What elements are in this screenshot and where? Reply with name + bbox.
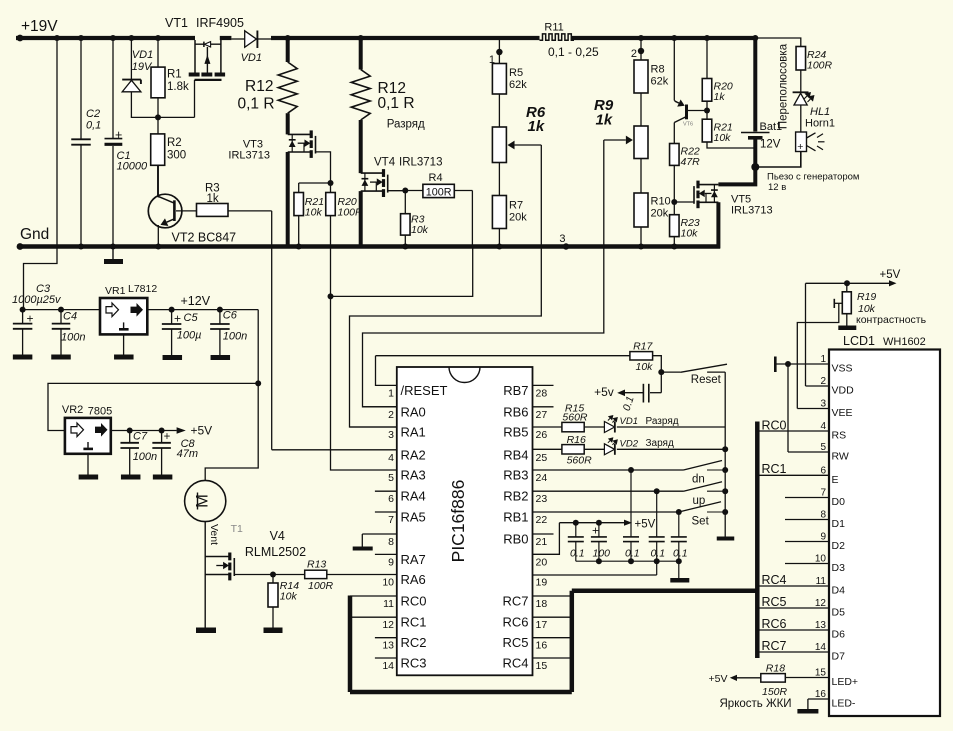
- label +19V: [21, 18, 58, 35]
- label VT2 BC847: [172, 231, 237, 245]
- transistor VT6: [674, 99, 707, 122]
- svg-text:2: 2: [631, 48, 637, 60]
- svg-text:100n: 100n: [223, 331, 247, 343]
- svg-text:100µ: 100µ: [177, 330, 202, 342]
- resistor R16: [533, 445, 605, 454]
- capacitor C2: [71, 40, 91, 245]
- svg-text:R13: R13: [307, 559, 326, 571]
- svg-text:R17: R17: [633, 341, 653, 353]
- label VT4 IRL3713: [374, 157, 442, 169]
- svg-text:0.1: 0.1: [651, 548, 666, 560]
- resistor R10: [634, 159, 648, 245]
- svg-text:8: 8: [388, 536, 394, 548]
- label VD1 led: [620, 416, 679, 427]
- node line VR1 input: [23, 309, 100, 311]
- node dot R14 top: [270, 572, 276, 578]
- svg-text:13: 13: [815, 620, 827, 631]
- svg-text:+: +: [174, 312, 181, 326]
- label Set: [692, 516, 710, 528]
- node dot R20 R21: [704, 108, 710, 114]
- transistor VT4 IRL3713: [361, 169, 388, 197]
- resistor R4: [405, 184, 472, 197]
- node dot R4 node: [402, 188, 408, 194]
- pin 11 RC0: [350, 594, 427, 611]
- svg-text:7805: 7805: [88, 406, 112, 418]
- LCD pin 10 D3: [785, 554, 845, 575]
- node dot set drop: [676, 509, 682, 515]
- diode VD1 power: [231, 31, 271, 49]
- wire VDD feed: [805, 283, 807, 386]
- wire HL1 to horn: [800, 105, 802, 132]
- wire R3 to RA2: [272, 211, 397, 450]
- resistor R22: [670, 144, 680, 215]
- svg-text:6: 6: [820, 465, 826, 476]
- svg-text:RB4: RB4: [503, 447, 528, 462]
- svg-text:HL1: HL1: [810, 106, 830, 118]
- svg-text:14: 14: [382, 660, 394, 672]
- pin 7 RA5: [375, 510, 426, 527]
- svg-text:R16: R16: [567, 434, 586, 446]
- svg-text:1.8k: 1.8k: [167, 81, 189, 93]
- svg-text:1: 1: [388, 387, 394, 399]
- svg-text:23: 23: [536, 493, 548, 505]
- wire reset bus down: [717, 372, 735, 540]
- wire horn to node: [755, 152, 801, 168]
- svg-text:WH1602: WH1602: [883, 336, 926, 348]
- capacitor C8: [152, 428, 172, 480]
- capacitor C5: [162, 307, 182, 360]
- LCD pin 2 VDD: [806, 376, 855, 397]
- label LCD1: [843, 334, 926, 348]
- label RC0: [762, 419, 787, 433]
- svg-text:RC7: RC7: [502, 594, 528, 609]
- pin 12 RC1: [350, 615, 427, 632]
- label RC1: [762, 462, 787, 476]
- svg-text:14: 14: [815, 642, 827, 653]
- wire VT6 collector to rail: [673, 40, 675, 101]
- label R17: [633, 341, 653, 374]
- label bank c3: [625, 548, 640, 560]
- svg-text:RC0: RC0: [401, 594, 427, 609]
- label bank c5: [673, 548, 688, 560]
- svg-text:+5v: +5v: [594, 385, 614, 399]
- svg-text:12: 12: [815, 598, 827, 609]
- label +5V r18: [709, 673, 728, 685]
- svg-text:26: 26: [536, 429, 548, 441]
- svg-text:Разряд: Разряд: [646, 416, 679, 427]
- wire cap bank bottom rail: [576, 560, 679, 562]
- pin 10 RA6: [382, 572, 425, 589]
- node dot R1 bottom: [155, 114, 161, 120]
- potentiometer R9: [604, 126, 648, 159]
- svg-text:100R: 100R: [807, 60, 833, 72]
- svg-text:RC1: RC1: [762, 462, 787, 476]
- svg-text:2: 2: [388, 409, 394, 421]
- IC LCD1 WH1602 body: [829, 350, 940, 717]
- pin 4 RA2: [388, 447, 426, 464]
- svg-text:12V: 12V: [760, 139, 781, 151]
- svg-text:20k: 20k: [651, 208, 669, 220]
- label R6: [526, 104, 546, 135]
- label VT6: [683, 122, 693, 128]
- svg-text:27: 27: [536, 409, 548, 421]
- svg-text:10k: 10k: [280, 591, 298, 603]
- label R20 near VT3: [338, 196, 364, 219]
- svg-text:LED-: LED-: [832, 698, 856, 710]
- svg-text:10: 10: [382, 577, 394, 589]
- resistor R14: [264, 575, 283, 634]
- svg-text:RB5: RB5: [503, 425, 528, 440]
- label C3: [12, 283, 62, 306]
- label R20 1k: [714, 81, 733, 104]
- pin 21 RB0: [503, 532, 553, 549]
- label bank c4: [651, 548, 666, 560]
- svg-text:PIC16f886: PIC16f886: [448, 480, 468, 563]
- node dot VSS: [785, 361, 791, 367]
- svg-text:VD1: VD1: [132, 49, 153, 61]
- svg-text:5: 5: [388, 472, 394, 484]
- zener VD1 19V: [122, 40, 141, 117]
- svg-text:RA1: RA1: [401, 425, 426, 440]
- label piezo: [767, 172, 859, 194]
- label Razryad: [387, 119, 425, 131]
- svg-text:R7: R7: [509, 200, 523, 212]
- label +5v reset: [594, 385, 614, 399]
- svg-text:+5V: +5V: [635, 519, 656, 531]
- body diode VT4: [362, 173, 369, 191]
- svg-text:+5V: +5V: [880, 269, 901, 281]
- label HL1: [810, 106, 830, 118]
- pin 14 RC3: [375, 656, 427, 673]
- svg-text:RB3: RB3: [503, 468, 528, 483]
- svg-text:+: +: [27, 312, 34, 326]
- svg-text:25: 25: [536, 452, 548, 464]
- wire VSS to RW: [787, 364, 789, 452]
- wire R9 wiper route: [363, 140, 604, 407]
- svg-text:5: 5: [820, 442, 826, 453]
- svg-text:T1: T1: [231, 523, 243, 535]
- label C1: [117, 150, 148, 173]
- svg-text:17: 17: [536, 619, 548, 631]
- svg-text:9: 9: [388, 556, 394, 568]
- svg-text:0.1: 0.1: [570, 548, 585, 560]
- node dot rail R8: [638, 35, 644, 41]
- svg-text:RA5: RA5: [401, 510, 426, 525]
- label RC7: [762, 639, 787, 653]
- svg-text:10k: 10k: [681, 228, 699, 240]
- resistor R20 near VT3: [326, 193, 336, 297]
- svg-text:V4: V4: [270, 529, 285, 543]
- svg-text:Reset: Reset: [691, 374, 722, 386]
- svg-text:up: up: [693, 495, 706, 507]
- svg-text:RC6: RC6: [762, 617, 787, 631]
- wire R5 top: [498, 40, 500, 52]
- svg-text:1k: 1k: [207, 193, 219, 205]
- svg-text:18: 18: [536, 598, 548, 610]
- ground set drop: [670, 561, 689, 582]
- svg-text:C7: C7: [133, 431, 148, 443]
- capacitor bank c1 0.1: [568, 523, 584, 562]
- node dot rail VT6: [671, 35, 677, 41]
- svg-text:12: 12: [382, 619, 394, 631]
- node 2: [631, 48, 644, 60]
- node dot R19 top: [844, 280, 850, 286]
- svg-text:10k: 10k: [411, 224, 429, 236]
- speaker Horn1: [796, 132, 825, 153]
- pin 24 RB3: [503, 468, 547, 485]
- svg-text:1k: 1k: [596, 112, 613, 129]
- label R4: [426, 172, 452, 198]
- svg-text:6: 6: [388, 493, 394, 505]
- svg-text:Яркость ЖКИ: Яркость ЖКИ: [720, 698, 792, 710]
- wire VT3 gate route: [316, 152, 331, 183]
- node dots bank top: [573, 520, 602, 526]
- svg-text:62k: 62k: [651, 76, 669, 88]
- svg-text:R19: R19: [857, 291, 876, 303]
- wire Gnd rail: [20, 244, 720, 248]
- wire R6 wiper route: [350, 145, 542, 427]
- wire VT5 gate lead: [674, 201, 694, 203]
- svg-text:4: 4: [388, 452, 394, 464]
- svg-text:0,1 R: 0,1 R: [238, 96, 275, 113]
- wire T1 gate: [234, 574, 304, 576]
- label RC5: [762, 595, 787, 609]
- terminal VSS bar: [774, 357, 777, 373]
- label PIC16f886: [448, 480, 468, 563]
- node dot gnd R3b: [402, 244, 408, 250]
- resistor R21 near VT3: [294, 193, 304, 245]
- capacitor bank c3 0.1: [623, 470, 639, 561]
- label dn: [692, 474, 705, 486]
- svg-text:22: 22: [536, 514, 548, 526]
- label C6: [223, 310, 247, 343]
- svg-text:R11: R11: [544, 22, 563, 34]
- label R1: [167, 69, 189, 94]
- svg-text:10k: 10k: [636, 361, 654, 373]
- pin 27 RB6: [503, 404, 553, 421]
- svg-text:VD1: VD1: [620, 416, 638, 427]
- svg-text:RC6: RC6: [502, 615, 528, 630]
- node dot rail R12a: [285, 35, 291, 41]
- node dot up bus: [722, 488, 728, 494]
- svg-text:15: 15: [536, 660, 548, 672]
- capacitor bank c5 0.1: [671, 512, 687, 561]
- svg-text:D1: D1: [832, 518, 846, 530]
- svg-text:RB2: RB2: [503, 489, 528, 504]
- svg-text:300: 300: [167, 150, 186, 162]
- label R13: [307, 559, 334, 593]
- svg-text:10k: 10k: [305, 207, 323, 219]
- svg-text:20: 20: [536, 556, 548, 568]
- wire route to RA3: [331, 296, 397, 470]
- svg-text:/RESET: /RESET: [401, 383, 448, 398]
- resistor R3: [176, 204, 272, 217]
- node dot rail R12b: [358, 35, 364, 41]
- svg-text:LED+: LED+: [832, 676, 859, 688]
- label C7: [133, 431, 157, 464]
- transistor VT1 IRF4905: [189, 40, 225, 117]
- label VD1 power: [241, 52, 262, 64]
- label R24: [807, 49, 833, 72]
- resistor R18: [730, 674, 786, 683]
- svg-text:IRL3713: IRL3713: [228, 150, 270, 162]
- resistor R12 first: [278, 40, 297, 134]
- pin 16 RC5: [502, 635, 571, 652]
- label R3 10k: [411, 214, 429, 237]
- svg-text:10k: 10k: [714, 132, 732, 144]
- svg-text:RC0: RC0: [762, 419, 787, 433]
- diode HL1: [793, 92, 815, 105]
- label V4: [245, 529, 306, 559]
- node +19V terminal dot: [17, 35, 24, 42]
- svg-text:RA0: RA0: [401, 404, 426, 419]
- svg-text:R4: R4: [429, 172, 443, 184]
- svg-text:Переполюсовка: Переполюсовка: [778, 43, 790, 129]
- svg-text:RB7: RB7: [503, 383, 528, 398]
- resistor R17: [630, 352, 661, 373]
- capacitor C6: [210, 307, 230, 360]
- svg-text:560R: 560R: [562, 412, 588, 424]
- label VT1 IRF4905: [165, 16, 244, 30]
- svg-text:VT1: VT1: [165, 16, 188, 30]
- label kontrast: [856, 314, 927, 326]
- node dot gnd C1: [110, 244, 116, 250]
- svg-text:100n: 100n: [133, 451, 157, 463]
- potentiometer R6: [492, 127, 541, 163]
- transistor VT3 IRL3713: [288, 130, 316, 158]
- resistor R11: [540, 34, 575, 40]
- label R9: [594, 97, 614, 129]
- svg-text:VT6: VT6: [683, 122, 693, 128]
- diode VD1 led: [604, 415, 725, 433]
- LCD pin 13 D6: [757, 620, 845, 641]
- LCD pin 4 RS: [757, 421, 846, 442]
- svg-text:3: 3: [559, 233, 565, 245]
- svg-text:RS: RS: [832, 430, 847, 442]
- wire R4 lower route: [331, 249, 473, 297]
- svg-text:Gnd: Gnd: [20, 226, 49, 243]
- svg-text:IRL3713: IRL3713: [399, 157, 442, 169]
- arrow +5V vr2: [177, 427, 186, 434]
- node 3: [559, 233, 569, 250]
- svg-text:10000: 10000: [117, 161, 148, 173]
- node dot VD2 bus: [722, 446, 728, 452]
- node Gnd terminal dot: [17, 243, 24, 250]
- node dot dn drop: [628, 467, 634, 473]
- svg-text:RA3: RA3: [401, 468, 426, 483]
- label R21 10k: [714, 122, 733, 145]
- svg-text:RA7: RA7: [401, 552, 426, 567]
- capacitor C4: [51, 307, 71, 360]
- transistor VT5 IRL3713: [694, 181, 718, 209]
- svg-text:RB1: RB1: [503, 510, 528, 525]
- pin 5 RA3: [388, 468, 426, 485]
- svg-text:D6: D6: [832, 629, 846, 641]
- svg-text:RW: RW: [832, 451, 849, 463]
- label Reset: [691, 374, 722, 386]
- pin 2 RA0: [363, 404, 426, 421]
- svg-text:RB6: RB6: [503, 404, 528, 419]
- resistor R5: [492, 52, 506, 127]
- label up: [693, 495, 706, 507]
- label R18: [762, 663, 788, 699]
- wire +5V lcd: [806, 280, 897, 286]
- svg-text:13: 13: [382, 640, 394, 652]
- label R3: [205, 183, 220, 206]
- label Horn1: [805, 118, 835, 130]
- LCD pin 7 D0: [785, 488, 845, 509]
- node dot rail x57: [54, 35, 60, 41]
- wire vss drop: [656, 561, 658, 575]
- wire VR2 output: [111, 430, 177, 432]
- svg-text:62k: 62k: [509, 79, 527, 91]
- label +12V: [181, 294, 211, 308]
- svg-text:VD2: VD2: [620, 439, 639, 450]
- svg-text:C6: C6: [223, 310, 238, 322]
- label R14: [280, 580, 299, 603]
- LCD pin 3 VEE: [797, 399, 852, 420]
- wire R24 top: [757, 38, 801, 47]
- label R21 near VT3: [305, 196, 324, 219]
- label R22: [681, 146, 701, 169]
- svg-text:28: 28: [536, 387, 548, 399]
- pin 25 RB4: [503, 447, 547, 464]
- label bank c1: [570, 548, 585, 560]
- svg-text:R1: R1: [167, 69, 182, 81]
- svg-text:D2: D2: [832, 540, 846, 552]
- svg-text:15: 15: [815, 668, 827, 679]
- body diode VT5: [711, 185, 718, 203]
- wire VR1 output: [147, 309, 258, 311]
- svg-text:100: 100: [593, 548, 611, 560]
- svg-text:VDD: VDD: [832, 385, 855, 397]
- resistor R21 10k: [702, 111, 755, 149]
- pin 19 VSS: [533, 575, 657, 589]
- pin 8 NC: [353, 534, 397, 551]
- pin 17 RC6: [502, 615, 571, 632]
- resistor R13: [305, 570, 397, 578]
- label Gnd: [20, 226, 49, 243]
- LCD pin 16 LED-: [808, 689, 856, 710]
- svg-text:LCD1: LCD1: [843, 334, 875, 348]
- resistor R23: [670, 215, 680, 245]
- LCD pin 15 LED+: [785, 668, 858, 689]
- svg-text:D3: D3: [832, 562, 846, 574]
- wire R17 route: [376, 355, 630, 357]
- switch up: [533, 482, 726, 492]
- svg-text:RA6: RA6: [401, 572, 426, 587]
- node dot gnd VT2: [155, 244, 161, 250]
- svg-text:RLML2502: RLML2502: [245, 545, 306, 559]
- pin 9 RA7: [375, 552, 426, 569]
- svg-text:RC1: RC1: [401, 615, 427, 630]
- svg-text:1: 1: [820, 354, 826, 365]
- svg-text:+: +: [164, 431, 171, 443]
- diode VD2 led: [604, 437, 725, 455]
- LCD pin 12 D5: [757, 598, 845, 619]
- svg-text:RA4: RA4: [401, 489, 426, 504]
- svg-text:9: 9: [820, 532, 826, 543]
- body diode VT3: [289, 134, 296, 152]
- capacitor C1: [105, 40, 123, 245]
- switch Reset: [661, 364, 727, 372]
- node dot rail C1: [110, 35, 116, 41]
- svg-text:M: M: [194, 494, 212, 508]
- svg-text:D4: D4: [832, 585, 846, 597]
- svg-text:100R: 100R: [426, 186, 452, 198]
- wire node to VT5 drain: [718, 167, 755, 184]
- svg-text:RC3: RC3: [401, 656, 427, 671]
